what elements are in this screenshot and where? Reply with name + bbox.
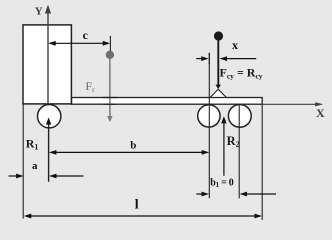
support circle R1	[38, 105, 61, 128]
svg-text:c: c	[83, 28, 89, 42]
roller circle at support C	[198, 105, 220, 127]
reaction arrow R2	[221, 116, 226, 176]
Y axis	[45, 5, 51, 104]
reaction arrow R1	[46, 117, 51, 181]
extension line through right roller	[238, 104, 240, 198]
pin support triangle	[210, 89, 226, 97]
force Fr arrow (gray, downward)	[107, 58, 112, 122]
column (vertical plate)	[23, 25, 71, 104]
extension line at column left edge	[22, 104, 24, 219]
svg-text:l: l	[135, 198, 139, 213]
svg-text:X: X	[316, 106, 325, 120]
dimension a	[9, 174, 84, 179]
force Fcy arrow (black, downward)	[216, 38, 221, 89]
force Fr application dot	[106, 51, 114, 59]
dimension x	[196, 53, 256, 65]
extension line at beam right end	[261, 104, 263, 220]
dimension b1	[196, 192, 276, 197]
roller circle right	[228, 105, 251, 128]
dimension l	[24, 214, 262, 219]
X axis	[263, 102, 323, 106]
svg-text:Y: Y	[35, 5, 43, 17]
extension line through support C	[208, 53, 210, 199]
svg-text:b: b	[130, 140, 136, 152]
beam	[72, 98, 263, 105]
beam edge overdraw where Fr arrow crosses	[103, 98, 117, 105]
svg-text:x: x	[232, 38, 238, 52]
svg-text:a: a	[32, 160, 38, 172]
dimension b	[49, 150, 209, 155]
dimension c	[48, 36, 110, 51]
svg-text:b1 = 0: b1 = 0	[210, 178, 234, 190]
force Fcy application dot	[214, 31, 223, 40]
